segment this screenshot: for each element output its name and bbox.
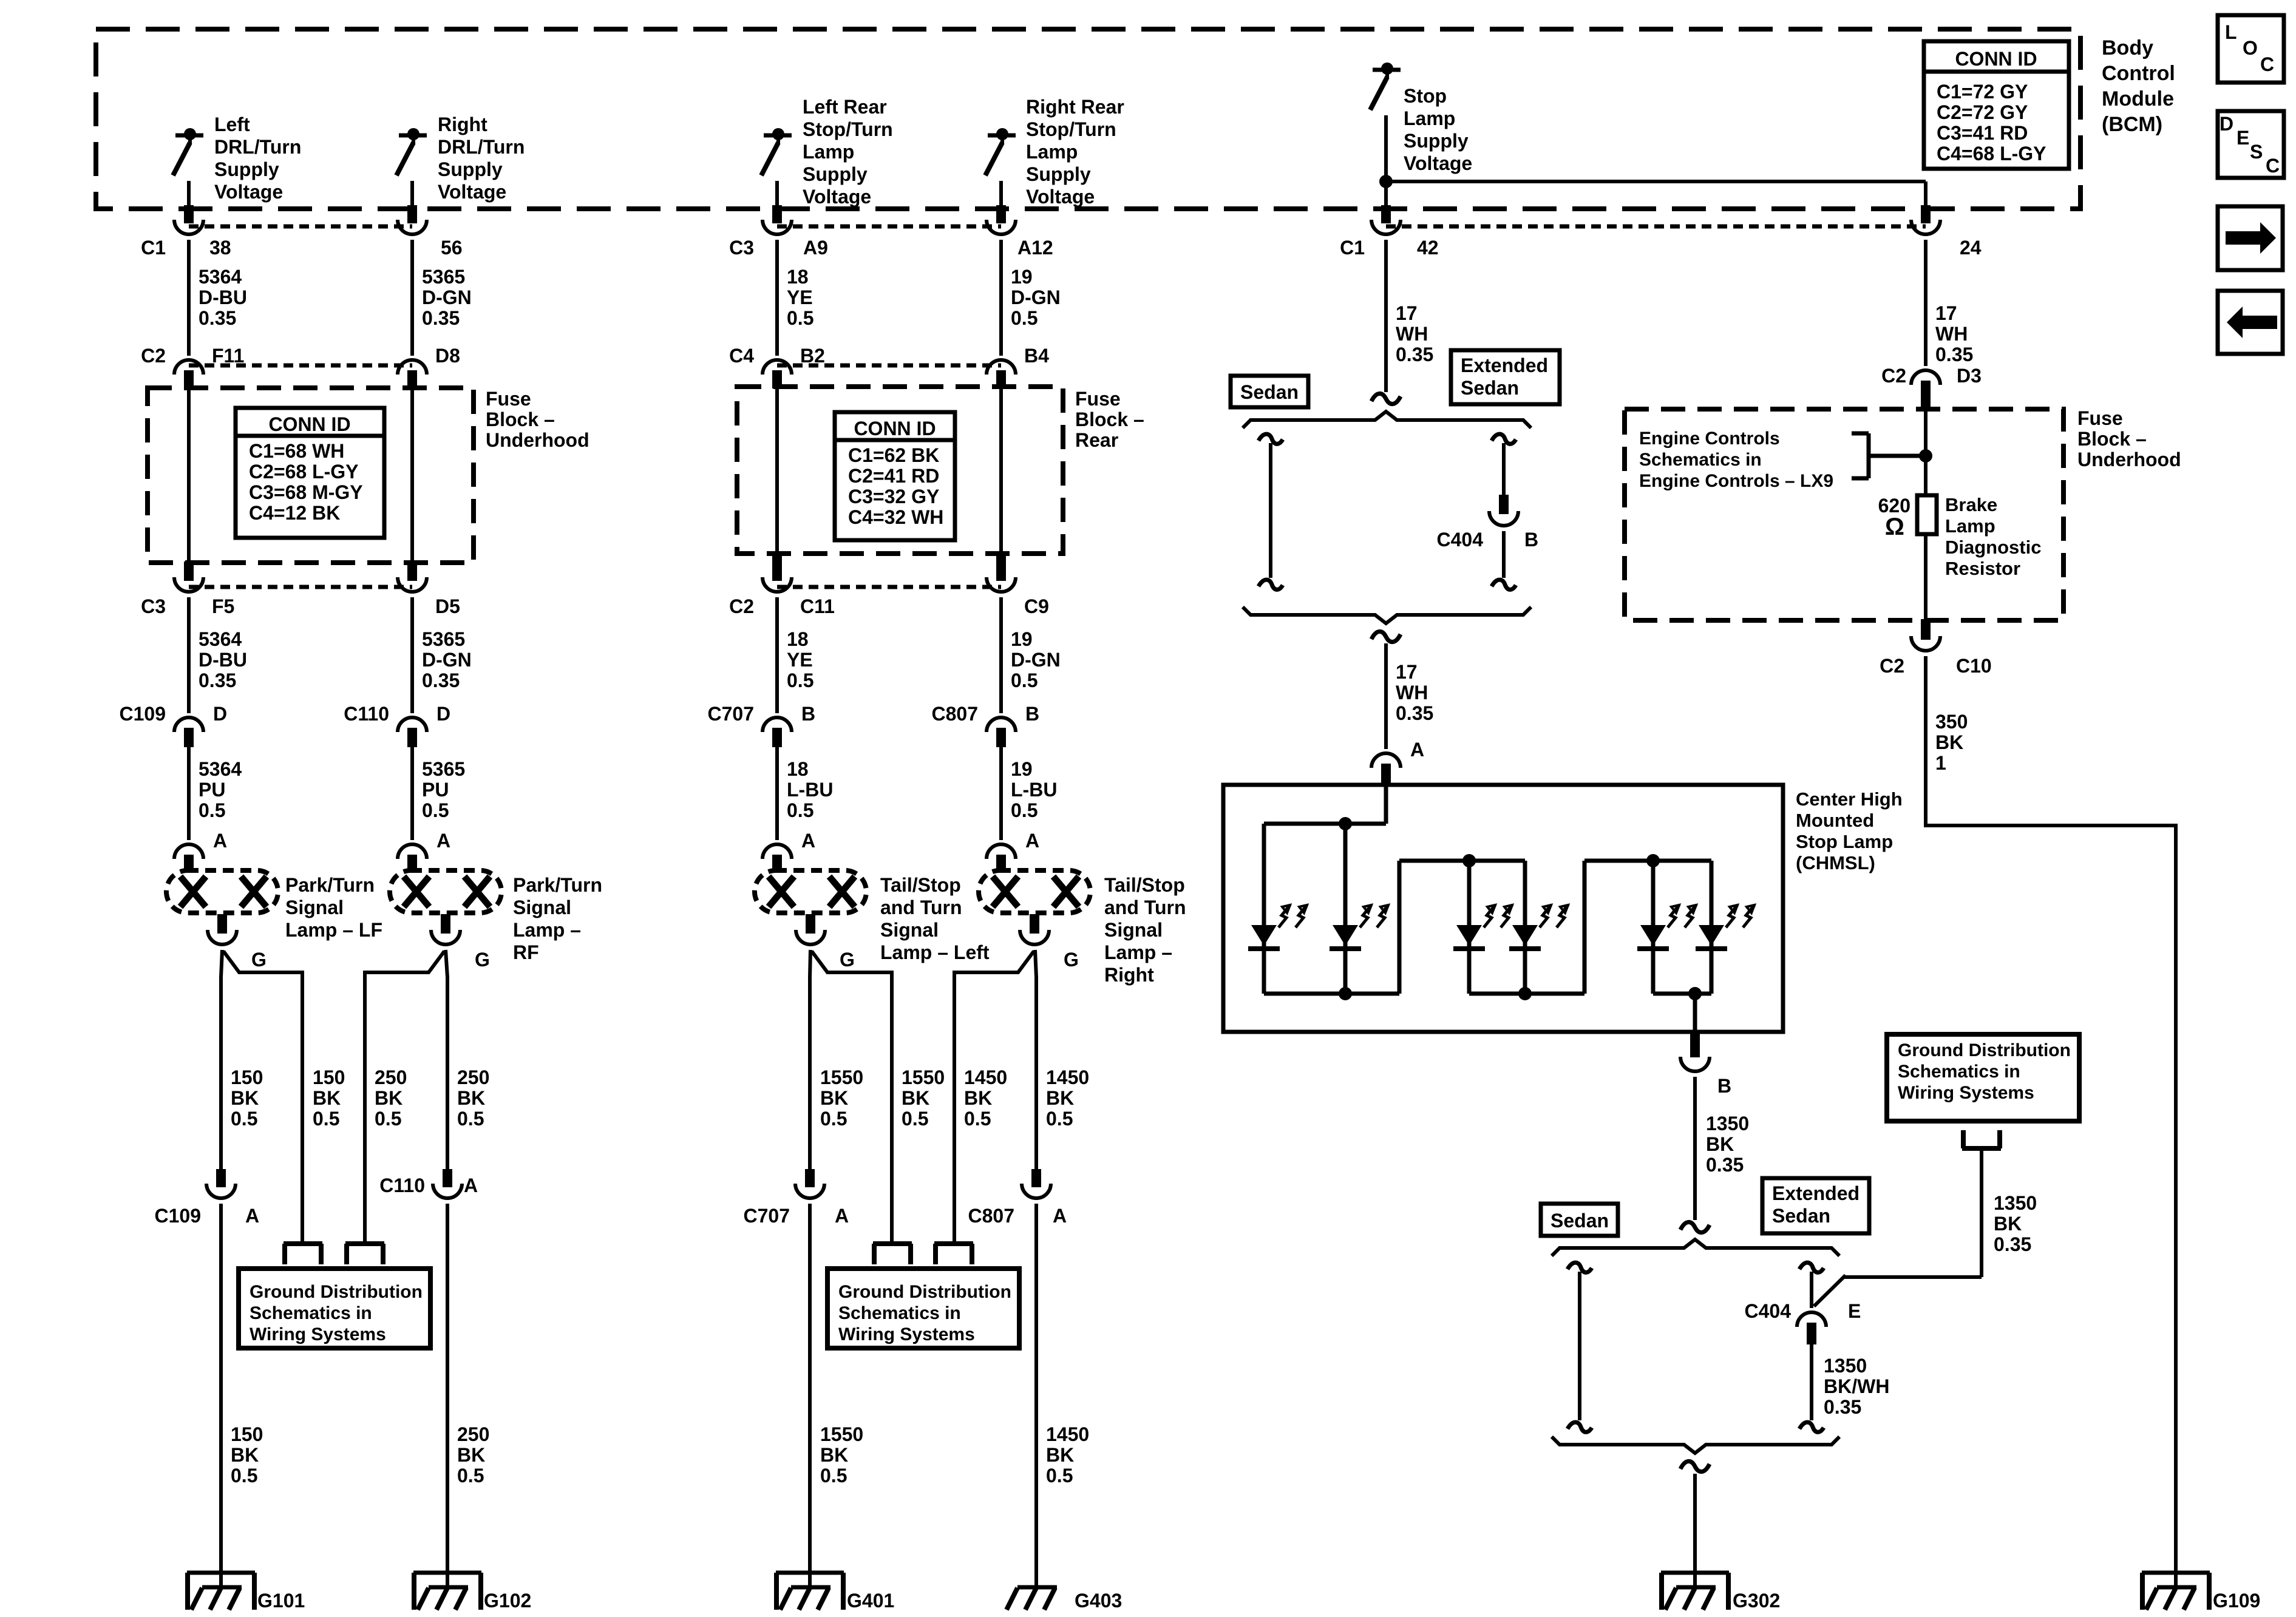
svg-text:0.5: 0.5	[1011, 670, 1038, 691]
svg-text:0.5: 0.5	[199, 799, 225, 821]
svg-text:C4=32 WH: C4=32 WH	[848, 506, 943, 528]
svg-text:0.35: 0.35	[1935, 344, 1973, 365]
svg-text:G109: G109	[2213, 1590, 2260, 1612]
svg-text:0.35: 0.35	[199, 307, 236, 329]
svg-text:0.5: 0.5	[902, 1108, 928, 1130]
label C807 / A	[968, 1205, 1067, 1227]
svg-text:Engine Controls – LX9: Engine Controls – LX9	[1639, 471, 1833, 491]
connector C3 pin A9	[763, 220, 792, 234]
svg-text:Stop Lamp: Stop Lamp	[1796, 831, 1893, 852]
label 620 ohm	[1878, 495, 1911, 540]
svg-text:A: A	[835, 1205, 849, 1227]
label 1450 BK 0.5 outer-right rear	[1046, 1066, 1089, 1130]
wire stop switch down	[1384, 115, 1388, 181]
CHMSL riser 1	[1398, 861, 1402, 994]
svg-text:0.5: 0.5	[787, 799, 813, 821]
wire col F down from branch	[1921, 181, 1931, 223]
wire 5365 PU 0.5	[412, 747, 465, 840]
svg-text:19: 19	[1011, 628, 1033, 650]
wire 1350 BK/WH 0.35	[1799, 1344, 1889, 1432]
svg-text:Tail/Stop: Tail/Stop	[880, 874, 961, 896]
lamp Park/Turn Signal RF	[390, 870, 501, 971]
Extended Sedan box lower	[1762, 1178, 1869, 1233]
svg-text:Fuse: Fuse	[2077, 407, 2123, 429]
connector pin A into lamp at x=1649	[987, 830, 1039, 872]
CHMSL bottom bus 3	[1653, 992, 1711, 996]
svg-text:and Turn: and Turn	[1104, 897, 1186, 918]
svg-text:C: C	[2266, 155, 2280, 177]
svg-text:0.5: 0.5	[787, 307, 813, 329]
svg-text:C3: C3	[729, 237, 754, 259]
ground G403	[1007, 1560, 1122, 1612]
DESC legend box	[2218, 111, 2284, 178]
wire col F in fuse block upper	[1924, 410, 1927, 495]
junction CHMSL bus2b	[1518, 987, 1532, 1000]
svg-text:1450: 1450	[964, 1066, 1007, 1088]
svg-text:0.5: 0.5	[457, 1108, 484, 1130]
label 150 BK 0.5 outer-left	[231, 1066, 263, 1130]
svg-text:Resistor: Resistor	[1945, 558, 2020, 579]
svg-text:E: E	[1848, 1300, 1861, 1322]
svg-text:Left: Left	[214, 114, 250, 135]
svg-text:1550: 1550	[902, 1066, 945, 1088]
svg-text:G403: G403	[1075, 1590, 1122, 1612]
svg-text:1350: 1350	[1994, 1192, 2037, 1214]
svg-text:S: S	[2250, 141, 2263, 163]
svg-text:Schematics in: Schematics in	[250, 1303, 372, 1323]
ground distribution box right	[1887, 1034, 2079, 1121]
svg-text:0.5: 0.5	[422, 799, 449, 821]
wire break below lower option brace	[1680, 1461, 1710, 1471]
svg-text:B2: B2	[800, 345, 825, 367]
svg-text:0.5: 0.5	[1011, 799, 1038, 821]
connector C3 pin F5	[174, 577, 203, 592]
svg-text:Lamp –: Lamp –	[1104, 941, 1172, 963]
connector C4 pin B4	[987, 360, 1016, 388]
svg-text:A12: A12	[1017, 237, 1053, 259]
svg-text:Voltage: Voltage	[438, 181, 506, 203]
svg-text:1550: 1550	[820, 1066, 863, 1088]
Extended Sedan box upper	[1451, 350, 1560, 404]
switch Right DRL/Turn	[396, 128, 427, 175]
svg-text:BK: BK	[457, 1444, 485, 1466]
label Park/Turn Signal Lamp LF	[285, 874, 382, 941]
label Stop Lamp Supply Voltage	[1404, 85, 1472, 174]
label Tail/Stop and Turn Signal Lamp Left	[880, 874, 990, 963]
svg-text:D-GN: D-GN	[1011, 649, 1061, 671]
svg-text:C2: C2	[1881, 365, 1906, 387]
svg-text:Schematics in: Schematics in	[1639, 450, 1762, 470]
svg-text:B: B	[1524, 529, 1538, 551]
connector C2 pin C10	[1911, 636, 1940, 651]
svg-text:BK: BK	[964, 1087, 992, 1109]
svg-text:0.5: 0.5	[820, 1465, 847, 1486]
row2 dotted line middle	[777, 364, 1001, 368]
svg-text:DRL/Turn: DRL/Turn	[438, 136, 525, 158]
svg-text:BK: BK	[1046, 1087, 1074, 1109]
option wire ext sedan upper lower part	[1492, 531, 1516, 589]
svg-text:Lamp: Lamp	[1026, 141, 1078, 163]
svg-text:Schematics in: Schematics in	[1898, 1062, 2020, 1082]
svg-text:PU: PU	[422, 779, 449, 801]
svg-text:Ground Distribution: Ground Distribution	[250, 1282, 423, 1302]
svg-text:Brake: Brake	[1945, 494, 1997, 515]
svg-text:38: 38	[209, 237, 231, 259]
svg-text:C3=41 RD: C3=41 RD	[1937, 122, 2028, 144]
option brace upper top	[1243, 412, 1531, 428]
wire 5365 D-GN 0.35 (lower)	[412, 597, 472, 713]
svg-text:C3=32 GY: C3=32 GY	[848, 486, 939, 507]
svg-text:1350: 1350	[1824, 1355, 1867, 1377]
wire RT ground leg inner	[954, 951, 1034, 1241]
connector pin A into lamp at x=679	[398, 830, 450, 872]
fork from ground distribution right	[1962, 1130, 2001, 1148]
label Left DRL/Turn Supply Voltage	[214, 114, 301, 203]
svg-text:Extended: Extended	[1461, 354, 1548, 376]
wire LT ground leg outer	[810, 950, 810, 1169]
prev-page arrow box	[2218, 291, 2283, 354]
svg-text:1: 1	[1935, 752, 1946, 774]
svg-text:250: 250	[457, 1066, 489, 1088]
svg-text:C2: C2	[729, 595, 754, 617]
junction CHMSL exit	[1688, 987, 1702, 1000]
label 56	[441, 237, 463, 259]
svg-text:C: C	[2260, 53, 2274, 75]
label D8	[435, 345, 460, 367]
svg-text:5365: 5365	[422, 758, 465, 780]
wire C807A to G403	[1036, 1204, 1089, 1589]
svg-text:18: 18	[787, 266, 809, 288]
label C404 / E	[1745, 1300, 1861, 1322]
svg-text:B: B	[1717, 1075, 1731, 1097]
svg-text:Module: Module	[2102, 87, 2174, 110]
svg-text:Supply: Supply	[214, 158, 279, 180]
svg-text:G302: G302	[1733, 1590, 1780, 1612]
svg-text:RF: RF	[513, 941, 539, 963]
svg-text:(CHMSL): (CHMSL)	[1796, 852, 1875, 873]
svg-text:Center High: Center High	[1796, 788, 1903, 810]
wire 19 D-GN 0.5 (upper)	[1001, 240, 1061, 356]
connector C404 pin B	[1489, 495, 1518, 526]
svg-text:D-GN: D-GN	[422, 649, 472, 671]
switch Right Rear Stop/Turn	[985, 128, 1016, 175]
label B4	[1024, 345, 1049, 367]
svg-text:Sedan: Sedan	[1550, 1210, 1609, 1232]
svg-text:Supply: Supply	[1026, 163, 1091, 185]
svg-text:Underhood: Underhood	[2077, 449, 2181, 470]
junction CHMSL bus3	[1646, 854, 1660, 867]
svg-text:5365: 5365	[422, 628, 465, 650]
wire branch to right column	[1386, 180, 1926, 183]
label 1450 BK 0.5 inner-right rear	[964, 1066, 1007, 1130]
LOC legend box	[2218, 15, 2284, 83]
label Fuse Block Underhood	[486, 388, 589, 451]
svg-text:D3: D3	[1957, 365, 1982, 387]
svg-text:BK: BK	[313, 1087, 341, 1109]
svg-text:A: A	[1025, 830, 1039, 852]
svg-text:C2: C2	[141, 345, 166, 367]
lamp Tail/Stop Turn Right	[979, 870, 1090, 971]
connector C707 pin A	[795, 1169, 824, 1198]
CHMSL led leg 5	[1637, 861, 1696, 994]
label 1550 BK 0.5 outer-left rear	[820, 1066, 863, 1130]
svg-text:Supply: Supply	[803, 163, 868, 185]
svg-text:C2=68 L-GY: C2=68 L-GY	[249, 461, 359, 483]
svg-text:BK: BK	[1994, 1213, 2022, 1235]
svg-text:Control: Control	[2102, 62, 2175, 85]
label C2 / F11	[141, 345, 244, 367]
CHMSL top bus 3	[1584, 859, 1711, 863]
svg-text:Voltage: Voltage	[803, 186, 871, 208]
svg-text:0.5: 0.5	[1011, 307, 1038, 329]
wire col A inside fuse block	[184, 388, 194, 581]
svg-text:BK/WH: BK/WH	[1824, 1375, 1889, 1397]
svg-text:F5: F5	[212, 595, 234, 617]
svg-text:250: 250	[457, 1423, 489, 1445]
svg-text:0.5: 0.5	[231, 1465, 257, 1486]
wire col F in fuse block lower	[1921, 534, 1931, 640]
svg-text:F11: F11	[212, 345, 244, 367]
svg-text:C4: C4	[729, 345, 754, 367]
svg-text:Sedan: Sedan	[1240, 381, 1299, 403]
connector C4 pin B2	[763, 360, 792, 388]
svg-text:CONN ID: CONN ID	[854, 418, 936, 439]
svg-text:C109: C109	[155, 1205, 202, 1227]
svg-text:D: D	[436, 703, 450, 725]
svg-text:Voltage: Voltage	[1026, 186, 1095, 208]
svg-text:G101: G101	[257, 1590, 305, 1612]
label 250 BK 0.5 inner-right	[375, 1066, 407, 1130]
svg-text:250: 250	[375, 1066, 407, 1088]
ground G101	[187, 1560, 305, 1612]
junction CHMSL bus2	[1462, 854, 1476, 867]
svg-text:D: D	[213, 703, 227, 725]
svg-text:C707: C707	[744, 1205, 790, 1227]
svg-text:0.5: 0.5	[964, 1108, 991, 1130]
label Left Rear Stop/Turn Lamp Supply Voltage	[803, 96, 893, 208]
BCM CONN ID box	[1924, 41, 2069, 169]
wire col D inside fuse block	[996, 388, 1006, 581]
label C2 / C11	[729, 595, 835, 617]
label 150 BK 0.5 inner-left	[313, 1066, 345, 1130]
label Center High Mounted Stop Lamp	[1796, 788, 1903, 873]
wire col B inside fuse block	[407, 388, 417, 581]
label Park/Turn Signal Lamp RF	[513, 874, 602, 963]
fuse block underhood right box	[1625, 409, 2063, 620]
svg-text:L: L	[2225, 21, 2237, 43]
CONN ID box rear	[835, 412, 955, 540]
connector C807 pin A	[1022, 1169, 1051, 1198]
svg-text:Ground Distribution: Ground Distribution	[1898, 1040, 2071, 1060]
svg-text:A: A	[436, 830, 450, 852]
svg-text:C2: C2	[1880, 655, 1904, 677]
svg-text:C1=62 BK: C1=62 BK	[848, 444, 939, 466]
label Brake Lamp Diagnostic Resistor	[1945, 494, 2041, 579]
wire break above lower option brace	[1680, 1222, 1710, 1232]
svg-text:0.5: 0.5	[313, 1108, 339, 1130]
svg-text:YE: YE	[787, 649, 813, 671]
svg-text:18: 18	[787, 758, 809, 780]
row3 dotted line left	[189, 585, 412, 589]
switch Left DRL/Turn	[173, 128, 203, 175]
label C707 / A	[744, 1205, 849, 1227]
svg-text:0.5: 0.5	[375, 1108, 401, 1130]
wire 18 YE 0.5 (lower)	[777, 597, 813, 713]
label D5	[435, 595, 460, 617]
label C2 / D3	[1881, 365, 1982, 387]
connector C707 pin B	[763, 717, 792, 747]
fork to ground distribution left-1	[284, 1244, 322, 1264]
svg-text:A: A	[1053, 1205, 1067, 1227]
svg-text:Park/Turn: Park/Turn	[285, 874, 375, 896]
svg-text:Lamp –: Lamp –	[513, 919, 581, 941]
svg-text:0.35: 0.35	[1994, 1233, 2031, 1255]
svg-text:BK: BK	[231, 1444, 259, 1466]
svg-text:G: G	[840, 949, 855, 971]
wire 19 L-BU 0.5	[1001, 747, 1057, 840]
svg-text:A: A	[1410, 739, 1424, 761]
next-page arrow box	[2218, 206, 2283, 270]
svg-text:B: B	[801, 703, 815, 725]
svg-text:CONN ID: CONN ID	[268, 413, 350, 435]
svg-text:C3: C3	[141, 595, 166, 617]
BCM dashed box	[96, 29, 2080, 209]
CHMSL bottom bus 1	[1264, 992, 1399, 996]
svg-text:(BCM): (BCM)	[2102, 113, 2162, 136]
connector row C3 dotted line middle	[777, 225, 1001, 229]
wire to G109 horizontal	[1926, 824, 2176, 827]
svg-text:WH: WH	[1935, 323, 1968, 345]
junction CHMSL bus1	[1339, 987, 1352, 1000]
wire 19 D-GN 0.5 (lower)	[1001, 597, 1061, 713]
connector C2 pin D3	[1911, 370, 1940, 410]
svg-text:D-BU: D-BU	[199, 649, 247, 671]
label C109 / D	[120, 703, 228, 725]
svg-text:BK: BK	[1935, 731, 1963, 753]
svg-text:C9: C9	[1024, 595, 1049, 617]
label Tail/Stop and Turn Signal Lamp Right	[1104, 874, 1186, 986]
ground G102	[413, 1560, 531, 1612]
svg-text:5364: 5364	[199, 266, 242, 288]
svg-text:L-BU: L-BU	[787, 779, 833, 801]
wire 5364 D-BU 0.35 (lower)	[189, 597, 247, 713]
svg-text:Wiring Systems: Wiring Systems	[838, 1324, 975, 1344]
connector C2 pin C11	[763, 577, 792, 592]
svg-text:Voltage: Voltage	[1404, 152, 1472, 174]
svg-text:C404: C404	[1745, 1300, 1792, 1322]
label C110 / D	[344, 703, 450, 725]
svg-text:A: A	[245, 1205, 259, 1227]
resistor Brake Lamp Diagnostic 620 ohm	[1917, 495, 1937, 534]
svg-text:BK: BK	[231, 1087, 259, 1109]
svg-text:Wiring Systems: Wiring Systems	[250, 1324, 386, 1344]
svg-text:G: G	[1064, 949, 1079, 971]
svg-text:Lamp – LF: Lamp – LF	[285, 919, 382, 941]
label C4 / B2	[729, 345, 825, 367]
svg-text:Fuse: Fuse	[1075, 388, 1121, 410]
svg-text:19: 19	[1011, 266, 1033, 288]
svg-text:Fuse: Fuse	[486, 388, 531, 410]
svg-text:0.5: 0.5	[787, 670, 813, 691]
svg-text:150: 150	[231, 1423, 263, 1445]
svg-text:5365: 5365	[422, 266, 465, 288]
svg-text:C3=68 M-GY: C3=68 M-GY	[249, 481, 363, 503]
junction CHMSL leg2 top	[1339, 817, 1352, 830]
svg-text:Mounted: Mounted	[1796, 810, 1874, 831]
wire col A switch to C1 connector	[184, 181, 194, 223]
svg-text:18: 18	[787, 628, 809, 650]
wire LF ground leg outer	[221, 950, 222, 1169]
svg-text:C707: C707	[708, 703, 755, 725]
svg-text:Rear: Rear	[1075, 429, 1118, 451]
svg-text:Block –: Block –	[1075, 408, 1144, 430]
svg-text:350: 350	[1935, 711, 1968, 733]
wire C110A to G102	[447, 1204, 489, 1589]
svg-text:C2=41 RD: C2=41 RD	[848, 465, 939, 487]
svg-text:and Turn: and Turn	[880, 897, 962, 918]
fuse block rear box	[737, 387, 1063, 554]
CHMSL led leg 3	[1453, 861, 1512, 994]
svg-text:BK: BK	[1706, 1133, 1734, 1155]
svg-text:Voltage: Voltage	[214, 181, 283, 203]
svg-text:Supply: Supply	[438, 158, 503, 180]
svg-text:B4: B4	[1024, 345, 1049, 367]
CHMSL exit wire	[1693, 994, 1697, 1033]
svg-text:C10: C10	[1956, 655, 1992, 677]
CHMSL bottom bus 2	[1469, 992, 1584, 996]
CHMSL led leg 6	[1696, 861, 1754, 994]
connector C3 pin D5	[398, 577, 427, 592]
svg-text:Extended: Extended	[1772, 1182, 1860, 1204]
svg-text:C4=12 BK: C4=12 BK	[249, 502, 340, 524]
label Fuse Block Rear	[1075, 388, 1144, 451]
svg-text:Lamp – Left: Lamp – Left	[880, 941, 990, 963]
connector CHMSL pin B	[1680, 1033, 1731, 1097]
CHMSL led leg 4	[1509, 861, 1568, 994]
svg-text:BK: BK	[820, 1444, 848, 1466]
lamp Tail/Stop Turn Left	[755, 870, 866, 971]
CHMSL box	[1223, 785, 1783, 1032]
label 24	[1960, 237, 1982, 259]
svg-text:Stop/Turn: Stop/Turn	[803, 118, 893, 140]
svg-text:1450: 1450	[1046, 1423, 1089, 1445]
svg-text:WH: WH	[1396, 682, 1428, 703]
svg-text:C1=72 GY: C1=72 GY	[1937, 81, 2028, 103]
connector CHMSL pin A	[1371, 739, 1424, 786]
svg-text:Stop/Turn: Stop/Turn	[1026, 118, 1116, 140]
label C404 / B	[1437, 529, 1539, 551]
connector C2 pin F11	[174, 360, 203, 390]
engine controls tap bracket	[1852, 433, 1926, 478]
svg-text:A: A	[464, 1175, 478, 1196]
svg-text:Park/Turn: Park/Turn	[513, 874, 602, 896]
svg-text:PU: PU	[199, 779, 225, 801]
svg-text:C11: C11	[800, 595, 835, 617]
wire break above upper option brace	[1371, 393, 1401, 404]
svg-text:Left Rear: Left Rear	[803, 96, 887, 118]
ground distribution box middle	[827, 1269, 1019, 1348]
svg-text:1350: 1350	[1706, 1113, 1749, 1134]
option wire ext sedan upper	[1492, 434, 1516, 496]
option wire ext sedan lower upper part	[1799, 1263, 1824, 1308]
svg-text:Tail/Stop: Tail/Stop	[1104, 874, 1185, 896]
svg-text:0.5: 0.5	[820, 1108, 847, 1130]
connector C2 pin C9	[987, 577, 1016, 592]
svg-text:0.35: 0.35	[1706, 1154, 1744, 1176]
svg-text:D-GN: D-GN	[1011, 286, 1061, 308]
svg-text:Right Rear: Right Rear	[1026, 96, 1124, 118]
label C1 / 42	[1340, 237, 1439, 259]
